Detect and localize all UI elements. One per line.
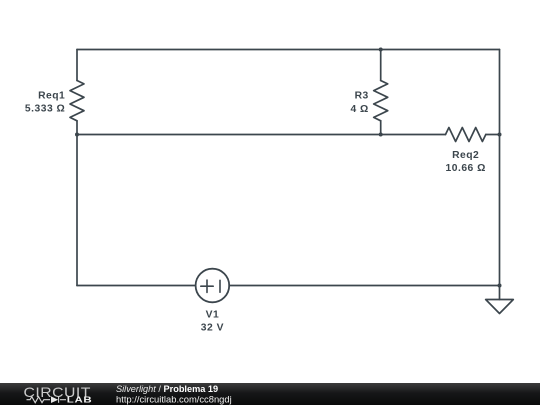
node dot R3 bottom <box>379 133 383 137</box>
V1 minus sign (rotated bar) <box>219 280 221 292</box>
wire top horizontal <box>77 49 500 51</box>
wire left vertical upper (top to Req1) <box>76 50 78 81</box>
CircuitLab logo diode triangle <box>51 396 58 403</box>
resistor Req2 <box>446 128 486 142</box>
svg-text:32 V: 32 V <box>201 322 224 333</box>
svg-text:R3: R3 <box>355 91 369 102</box>
svg-text:Req2: Req2 <box>452 150 479 161</box>
svg-text:V1: V1 <box>206 309 220 320</box>
svg-text:http://circuitlab.com/cc8ngdj: http://circuitlab.com/cc8ngdj <box>116 393 232 404</box>
svg-text:LAB: LAB <box>67 396 93 405</box>
wire middle horizontal <box>77 134 446 136</box>
svg-text:Silverlight / Problema 19: Silverlight / Problema 19 <box>116 384 218 394</box>
node dot Req2 right <box>498 133 502 137</box>
svg-text:10.66 Ω: 10.66 Ω <box>446 163 486 174</box>
node dot R3 top <box>379 48 383 52</box>
node dot ground <box>498 284 502 288</box>
wire right vertical <box>499 50 501 286</box>
voltage source V1 circle <box>196 269 230 303</box>
wire Req2 right stub <box>486 134 500 136</box>
wire left vertical lower (middle node to bottom) <box>76 135 78 286</box>
wire left vertical (Req1 to middle node) <box>76 121 78 135</box>
wire R3 top stub <box>380 50 382 81</box>
ground symbol triangle <box>486 300 514 314</box>
footer bar <box>0 383 540 405</box>
wire R3 bottom stub <box>380 121 382 135</box>
node dot left middle <box>75 133 79 137</box>
V1 plus sign <box>201 280 213 292</box>
wire bottom right (V1 to ground node) <box>229 285 499 287</box>
svg-text:5.333 Ω: 5.333 Ω <box>25 104 65 115</box>
svg-text:4 Ω: 4 Ω <box>350 104 368 115</box>
CircuitLab logo resistor-diode glyph <box>27 397 67 403</box>
resistor R3 <box>374 81 388 121</box>
wire bottom left (node to V1) <box>77 285 196 287</box>
resistor Req1 <box>70 81 84 121</box>
svg-text:Req1: Req1 <box>38 91 65 102</box>
ground stub wire <box>499 286 501 300</box>
